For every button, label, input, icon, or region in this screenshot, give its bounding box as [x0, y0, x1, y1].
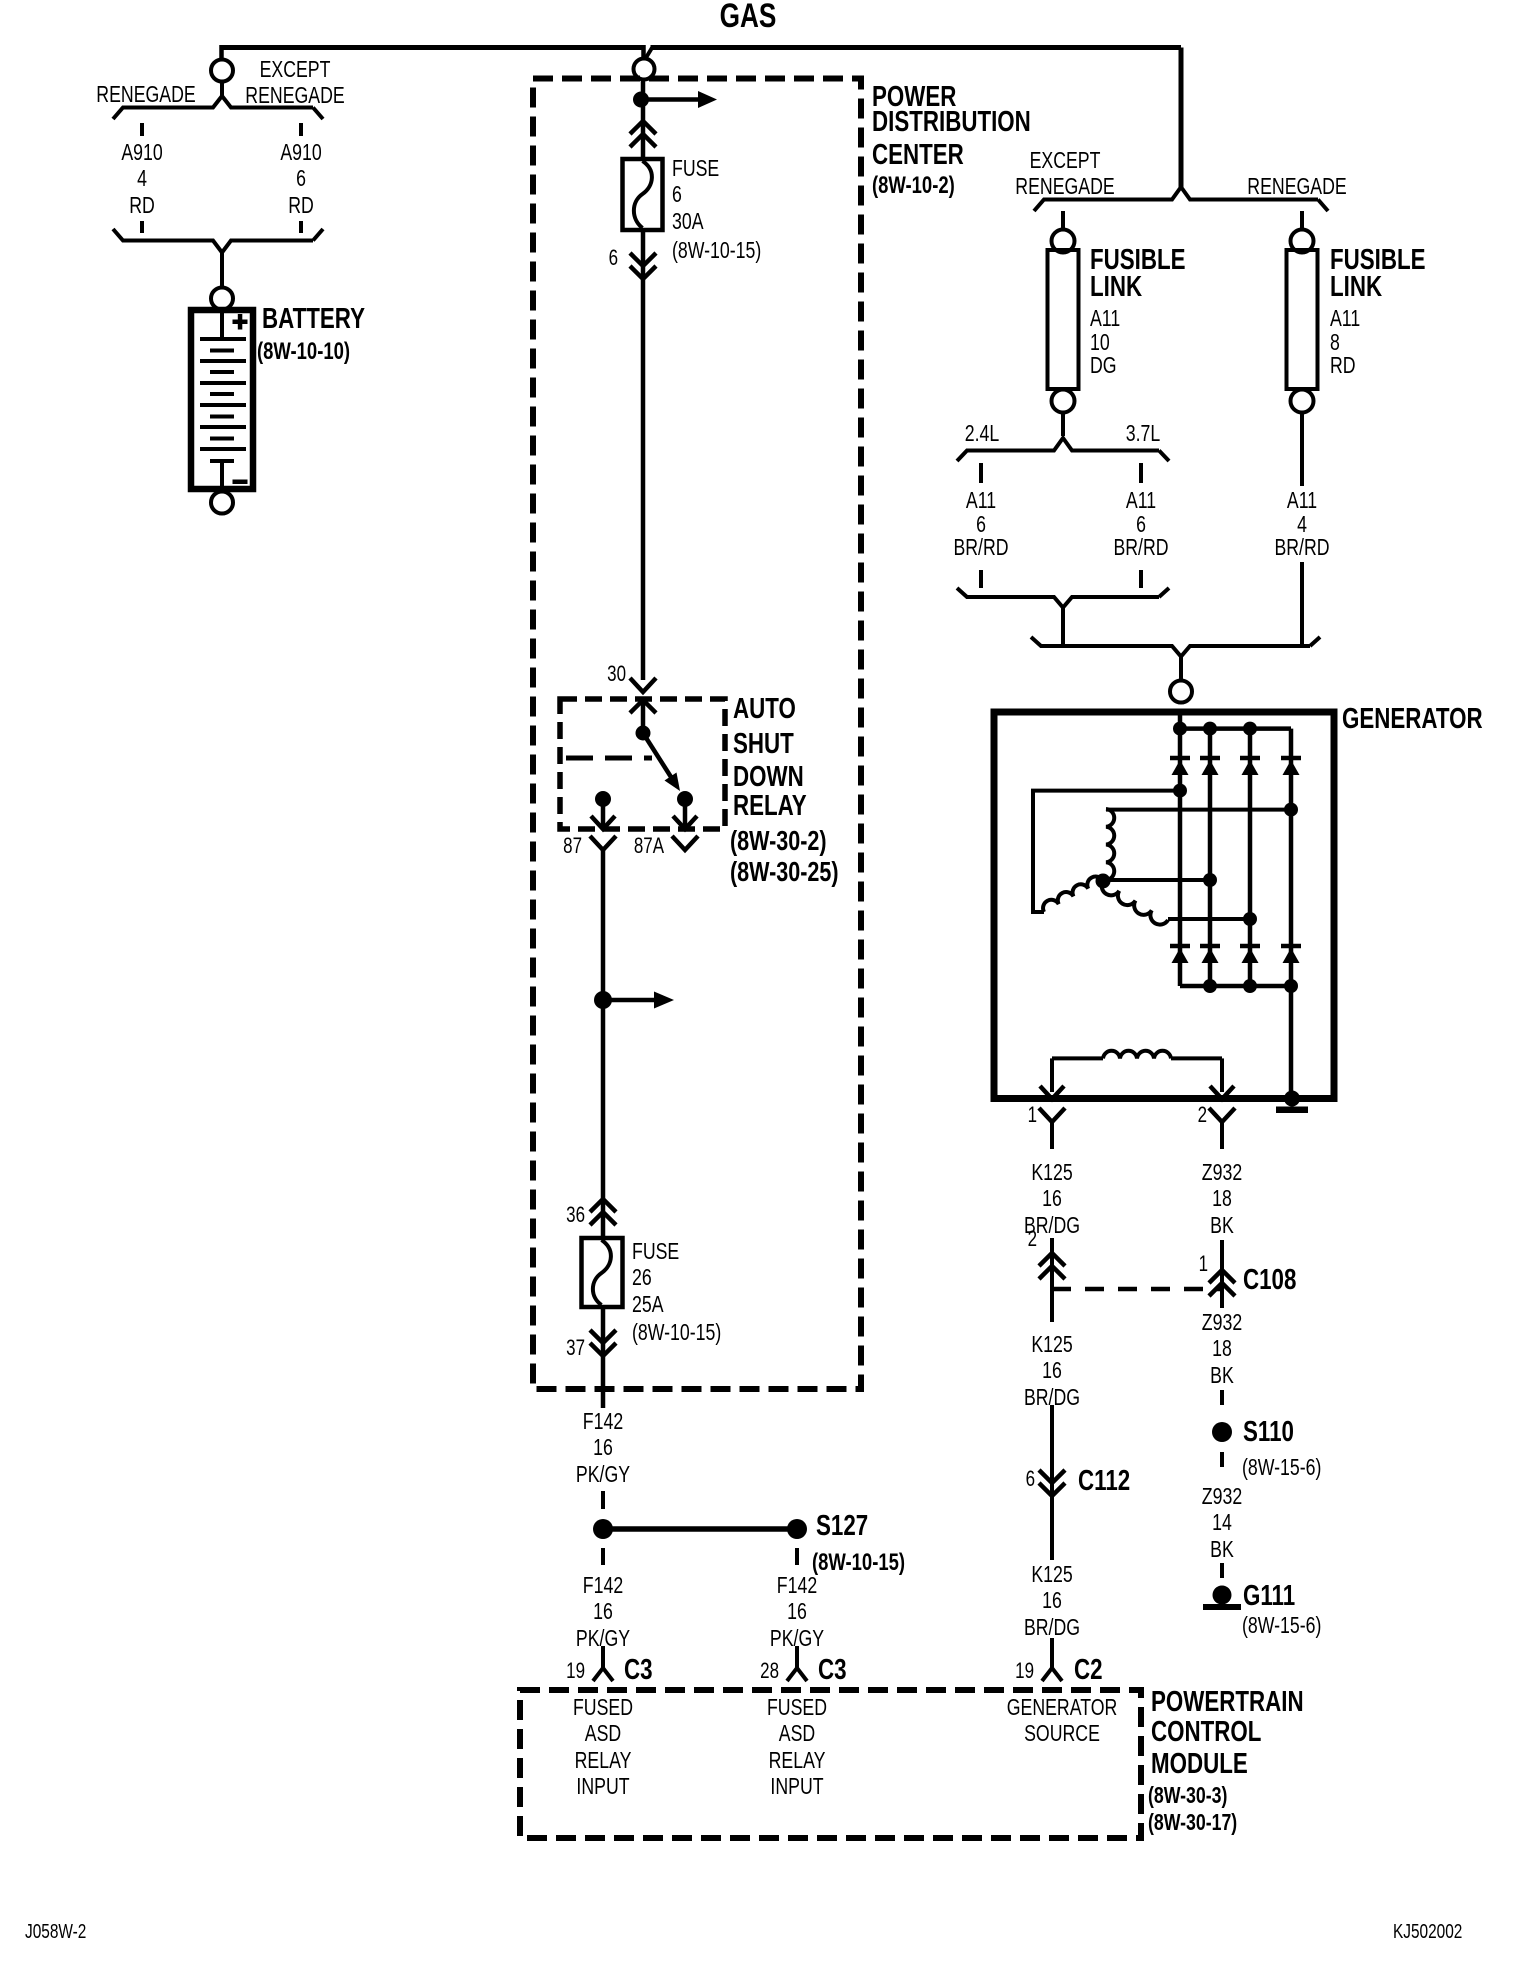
wire - dash below S127 right: [795, 1548, 799, 1565]
label EXCEPT RENEGADE (left): [218, 56, 372, 109]
wire - A11 4 BR/RD upper segment: [1300, 412, 1304, 486]
generator - stator frame wire to phase A: [1033, 791, 1180, 912]
fusible link A11 10 DG - bottom circle: [1052, 390, 1075, 413]
label wire Z932 14 BK: [1145, 1483, 1299, 1563]
ref (8W-30-3) (8W-30-17): [1148, 1782, 1227, 1809]
ground G111 bar: [1203, 1604, 1241, 1610]
fusible link A11 10 DG - body: [1048, 250, 1079, 389]
diode - lower leg1: [1170, 944, 1190, 949]
brace - EXCEPT RENEGADE / RENEGADE split (fusible links): [1034, 187, 1318, 211]
node - stator phase A tap dot on leg1: [1173, 784, 1187, 798]
name POWERTRAIN CONTROL MODULE: [1151, 1687, 1304, 1719]
name splice S127: [816, 1511, 868, 1543]
wire - K125 to C112: [1050, 1405, 1054, 1512]
connector C108 - dashed mate line: [1052, 1287, 1222, 1292]
battery B+ terminal circle: [211, 288, 233, 310]
diode - lower leg3: [1240, 944, 1260, 949]
connector chevrons - out of FUSE 6 (down) pin 6: [630, 253, 656, 266]
name connector C108: [1243, 1265, 1296, 1297]
relay - contact dot 87: [595, 791, 611, 807]
arrow - feed continues right (off-page): [641, 97, 700, 102]
wire - dash 2.4L branch lower: [979, 570, 983, 588]
name connector C2: [1074, 1655, 1103, 1687]
fuse F6 body: [623, 159, 663, 230]
generator - stator winding 1 (vertical coil): [1106, 809, 1114, 880]
pin 28 C3: [702, 1659, 779, 1683]
generator - leg4 ground lead: [1289, 986, 1294, 1099]
brace - 2.4L/3.7L merge: [957, 588, 1159, 608]
ref (8W-10-10): [257, 338, 350, 365]
pin 30: [549, 662, 626, 686]
generator - wye center to leg2 tap wire: [1103, 878, 1210, 882]
terminal - generator pin 1 female: [1039, 1108, 1065, 1122]
generator - rectifier leg4 wire: [1289, 729, 1294, 986]
wire - K125 below C112: [1050, 1511, 1054, 1560]
generator - rectifier leg1 wire: [1178, 729, 1183, 986]
label wire K125 16 BR/DG third: [975, 1561, 1129, 1641]
node - bottom bus dot leg3: [1243, 979, 1257, 993]
label 2.4L: [905, 420, 1059, 447]
generator - rectifier bottom bus: [1180, 984, 1291, 989]
name connector C3 first: [624, 1655, 653, 1687]
fuse F6 element curve: [634, 161, 652, 228]
ref (8W-10-2): [872, 172, 955, 199]
node - left splice circle (battery feed): [211, 60, 233, 82]
node - wye center dot: [1096, 874, 1111, 889]
ref (8W-15-6) S110: [1242, 1454, 1321, 1481]
pin 36: [508, 1203, 585, 1227]
wire - dash A910-4-RD upper left: [140, 123, 144, 136]
pin 6 below fuse 6: [541, 246, 618, 270]
battery plus sign: [233, 320, 248, 325]
fusible link A11 8 RD - top circle: [1291, 230, 1314, 253]
connector chevrons - out of FUSE 26 (down) pin 37: [590, 1330, 616, 1343]
label EXCEPT RENEGADE (right): [988, 147, 1142, 200]
pin 6 C112: [958, 1467, 1035, 1491]
relay - contact dot 87A: [677, 791, 693, 807]
relay - switch arm to 87A: [643, 733, 671, 777]
node - leg3 tap dot: [1243, 912, 1257, 926]
ref (8W-15-6) G111: [1242, 1612, 1321, 1639]
name BATTERY: [262, 304, 365, 336]
footer KJ502002: [1393, 1921, 1462, 1943]
relay - pin 30 arrow into common: [630, 700, 656, 713]
label 3.7L: [1066, 420, 1220, 447]
generator - stator winding 3 (to lower right): [1102, 881, 1168, 925]
wire - merge stem down: [1061, 608, 1065, 647]
node - bottom bus dot leg4: [1284, 979, 1298, 993]
wire - dash below S127 left: [601, 1548, 605, 1565]
wire - fuse 6 output: [641, 230, 646, 680]
fuse F26 element curve: [593, 1240, 611, 1305]
name GENERATOR: [1342, 704, 1483, 736]
pin 1 generator: [960, 1103, 1037, 1127]
terminal - pin 87A female below relay (unused): [672, 836, 698, 850]
wire - drop to right fusible link: [1300, 211, 1304, 231]
wire - Z932 segment to C108: [1220, 1240, 1224, 1308]
pin 19 C2: [957, 1659, 1034, 1683]
wire - dash 2.4L branch upper: [979, 463, 983, 483]
generator - rectifier top bus: [1180, 726, 1291, 731]
wire - relay 87 down to fuse 26: [601, 850, 606, 1240]
fusible link A11 8 RD - body: [1287, 250, 1318, 389]
generator B+ terminal circle: [1170, 681, 1192, 703]
node - leg2 tap dot: [1203, 873, 1217, 887]
pin 2 C108: [960, 1227, 1037, 1251]
diode - upper leg3: [1240, 756, 1260, 761]
connector C2 pin 19 symbol: [1050, 1652, 1054, 1668]
wire - dash 3.7L branch lower: [1139, 570, 1143, 588]
name FUSIBLE LINK left: [1090, 247, 1186, 300]
generator - field lead to terminal 1: [1050, 1058, 1054, 1092]
label wire F142 16 PK/GY lower right: [720, 1572, 874, 1652]
diode - lower leg2: [1200, 944, 1220, 949]
generator - winding3 to leg3 tap wire: [1168, 917, 1250, 921]
wire - right drop to fusible-link brace: [1179, 48, 1184, 188]
label wire A910 4 RD: [65, 139, 219, 219]
ground - generator case ground bar: [1276, 1107, 1308, 1114]
fusible link A11 8 RD - bottom circle: [1291, 390, 1314, 413]
node - top bus dot leg3: [1243, 722, 1257, 736]
label wire Z932 18 BK first: [1145, 1159, 1299, 1239]
label FUSED ASD RELAY INPUT first: [526, 1694, 680, 1800]
terminal - generator pin 2 female: [1209, 1108, 1235, 1122]
box - POWER DISTRIBUTION CENTER dashed outline: [533, 79, 861, 1390]
fusible link A11 10 DG - top circle: [1052, 230, 1075, 253]
fuse F26 body: [582, 1238, 623, 1307]
wire - jog into GAS splice circle: [641, 45, 646, 58]
label wire K125 16 BR/DG first: [975, 1159, 1129, 1239]
label FUSE 26 25A: [632, 1238, 679, 1318]
wire - dash Z932 above G111: [1220, 1563, 1224, 1578]
label wire Z932 18 BK second: [1145, 1309, 1299, 1389]
node - top bus dot leg1: [1173, 722, 1187, 736]
connector C3 pin 19 symbol: [601, 1652, 605, 1668]
node - GAS splice circle on PDC top edge: [634, 59, 655, 80]
ground - generator case ground dot: [1284, 1091, 1300, 1107]
name splice S110: [1243, 1417, 1294, 1449]
node - junction dot below GAS splice: [633, 92, 649, 108]
wire - left link to 2.4L/3.7L brace: [1061, 412, 1065, 436]
wire - K125 segment to C108: [1050, 1238, 1054, 1322]
wire - dash into C3 pin 28: [795, 1646, 799, 1653]
connector chevrons - C108 pin 2 (up): [1039, 1253, 1065, 1266]
label RENEGADE (right): [1220, 173, 1374, 200]
label FUSED ASD RELAY INPUT second: [720, 1694, 874, 1800]
splice S127 - right dot: [787, 1519, 807, 1539]
pin 2 generator: [1130, 1103, 1207, 1127]
connector C3 pin 28 symbol: [795, 1652, 799, 1668]
pin 87A: [587, 834, 664, 858]
node - top bus dot leg2: [1203, 722, 1217, 736]
pin 1 C108: [1131, 1252, 1208, 1276]
wire - dash A910-6-RD upper right: [299, 123, 303, 136]
label wire A11 4 BR/RD: [1225, 489, 1379, 560]
wire - main GAS feed horizontal bus left span: [221, 45, 644, 50]
label wire F142 16 PK/GY lower left: [526, 1572, 680, 1652]
brace - battery merge: [113, 229, 313, 253]
relay - 87A arrow out: [683, 799, 688, 827]
label FUSE 6 30A: [672, 155, 719, 235]
name connector C112: [1078, 1466, 1130, 1498]
node - bottom bus dot leg2: [1203, 979, 1217, 993]
diode - upper leg2: [1200, 756, 1220, 761]
wire - dash S110 to Z932 14: [1220, 1452, 1224, 1467]
generator - field winding coil: [1052, 1056, 1103, 1060]
arrow - branch right (off-page): [603, 998, 656, 1003]
diode - upper leg4: [1281, 756, 1301, 761]
wire - dash A910-4-RD lower left: [140, 221, 144, 233]
wire - merge to generator terminal: [1179, 657, 1183, 682]
node - junction dot with off-page arrow: [594, 991, 612, 1009]
label wire A910 6 RD: [224, 139, 378, 219]
brace - generator feed merge: [1031, 637, 1310, 657]
wire - splice to fuse 6 connector: [641, 79, 646, 160]
label wire F142 16 PK/GY upper: [526, 1408, 680, 1488]
label wire K125 16 BR/DG second: [975, 1331, 1129, 1411]
generator - stator winding 2 (to lower left): [1043, 877, 1103, 912]
generator - B+ lead into rectifier bus: [1178, 712, 1183, 731]
pin 37: [508, 1336, 585, 1360]
splice S127 - tie line: [603, 1526, 797, 1532]
wire - A11 4 BR/RD lower segment: [1300, 562, 1304, 646]
relay - common pivot dot: [636, 726, 651, 741]
connector chevrons - C108 pin 1 (up): [1209, 1270, 1235, 1283]
label RENEGADE (left): [69, 81, 223, 108]
terminal - relay pin 30 female: [630, 678, 656, 692]
ground G111 dot: [1213, 1586, 1232, 1605]
battery minus sign: [233, 480, 248, 485]
name POWER DISTRIBUTION CENTER: [872, 82, 956, 114]
connector chevrons - into FUSE 6 (up): [630, 121, 656, 134]
title GAS: [671, 0, 825, 33]
wire - K125 into C2: [1050, 1638, 1054, 1653]
splice S110 dot: [1212, 1422, 1232, 1442]
wire - stem from circle to brace peak: [220, 82, 224, 97]
ref (8W-10-15) fuse 6: [672, 237, 761, 264]
generator - winding1 to leg4 tap wire: [1106, 808, 1291, 812]
splice S127 - left dot: [593, 1519, 613, 1539]
wire - dash into C3 pin 19: [601, 1646, 605, 1653]
label wire A11 6 BR/RD left: [904, 489, 1058, 560]
relay - AUTO SHUT DOWN RELAY dashed box: [560, 699, 725, 829]
label A11 10 DG: [1090, 307, 1120, 378]
battery internal plates: [220, 313, 224, 339]
generator - rectifier leg2 wire: [1208, 729, 1213, 986]
name ground G111: [1243, 1581, 1295, 1613]
terminal - pin 87 female below relay: [590, 836, 616, 850]
footer J058W-2: [25, 1921, 86, 1943]
brace - 2.4L / 3.7L split: [957, 438, 1159, 461]
wire - brace to battery terminal: [220, 253, 224, 289]
name connector C3 second: [818, 1655, 847, 1687]
wire - dash 3.7L branch upper: [1139, 463, 1143, 483]
ref (8W-10-15) S127: [812, 1549, 905, 1576]
diode - upper leg1: [1170, 756, 1190, 761]
wire - drop to left fusible link: [1061, 211, 1065, 231]
generator - GENERATOR box outline: [994, 712, 1334, 1099]
wire - dash A910-6-RD lower right: [299, 221, 303, 233]
relay - 87 arrow out: [601, 799, 606, 827]
wire - main GAS feed horizontal bus right span: [651, 45, 1182, 50]
label GENERATOR SOURCE: [985, 1694, 1139, 1747]
brace - left EXCEPT RENEGADE split: [113, 96, 313, 119]
connector chevrons - C112 pin 6 (down): [1039, 1470, 1065, 1483]
battery BATTERY outline: [191, 310, 253, 489]
ref (8W-30-2) (8W-30-25): [730, 826, 827, 856]
ref (8W-10-15) fuse 26: [632, 1319, 721, 1346]
node - leg4 tap dot: [1284, 803, 1298, 817]
diode - lower leg4: [1281, 944, 1301, 949]
label wire A11 6 BR/RD right: [1064, 489, 1218, 560]
relay - internal divider dash: [566, 756, 652, 761]
connector chevrons - into FUSE 26 (up) pin 36: [590, 1199, 616, 1212]
pin 19 C3: [508, 1659, 585, 1683]
wire - dash F142 above S127: [601, 1491, 605, 1509]
pin 87: [505, 834, 582, 858]
generator - rectifier leg3 wire: [1248, 729, 1253, 986]
wire - drop to left splice circle: [219, 45, 224, 59]
label A11 8 RD: [1330, 307, 1360, 378]
wire - fuse 26 output to PCM: [601, 1307, 606, 1408]
box - POWERTRAIN CONTROL MODULE dashed outline: [520, 1690, 1141, 1838]
wire - dash Z932 above S110: [1220, 1390, 1224, 1405]
generator - field lead to terminal 2: [1220, 1058, 1224, 1092]
battery B- terminal circle: [211, 492, 233, 514]
name AUTO SHUT DOWN RELAY: [733, 694, 796, 726]
name FUSIBLE LINK right: [1330, 247, 1426, 300]
